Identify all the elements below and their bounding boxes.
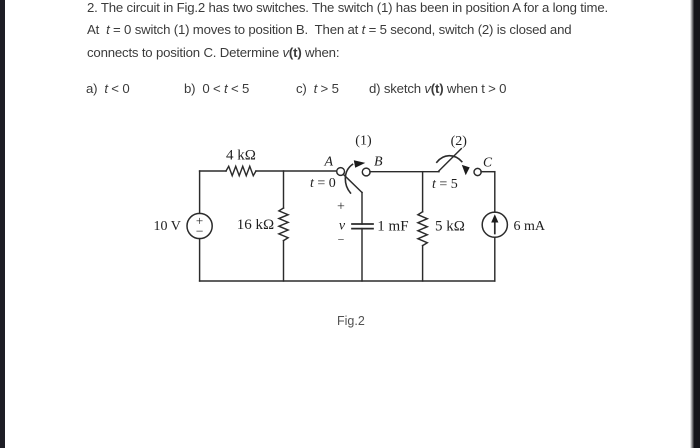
switch S1 arrowhead: [354, 160, 366, 168]
problem text line 3: [87, 45, 339, 60]
svg-text:A: A: [324, 155, 334, 170]
label 4 kOhm: [226, 148, 256, 164]
wire: right branch lower: [494, 237, 496, 281]
label v: [339, 219, 346, 234]
label 10 V: [154, 219, 181, 234]
svg-text:(2): (2): [451, 134, 468, 149]
svg-text:16 kΩ: 16 kΩ: [237, 217, 274, 233]
capacitor plus sign: [337, 199, 345, 214]
label 1 mF: [377, 219, 408, 235]
switch S1 arm (from A down to capacitor node): [343, 174, 362, 192]
switch S2 arrowhead: [462, 165, 470, 175]
switch S1 motion arrow arc: [345, 164, 352, 193]
svg-text:B: B: [374, 155, 383, 170]
voltage source minus sign: [196, 224, 204, 239]
label Fig.2: [337, 314, 365, 328]
wire: 5k branch upper stub: [422, 172, 424, 212]
svg-text:10 V: 10 V: [154, 219, 181, 234]
label B: [374, 155, 383, 170]
wire: left branch bottom (source to bottom rail): [199, 239, 201, 281]
option b: [184, 81, 249, 96]
wire: capacitor branch top (switch arm to plate): [361, 193, 363, 225]
label 16 kOhm: [237, 217, 274, 233]
switch S1 terminal B circle: [362, 168, 370, 176]
option d: [369, 81, 506, 96]
resistor R2 16k (vertical zigzag): [279, 208, 288, 241]
switch S1 terminal A circle: [337, 168, 345, 176]
label 6 mA: [514, 219, 546, 234]
wire: left branch top (node TL down to source): [199, 171, 201, 213]
wire: capacitor branch bottom: [361, 229, 363, 281]
svg-text:5 kΩ: 5 kΩ: [435, 219, 465, 235]
svg-text:t = 0: t = 0: [310, 176, 336, 191]
capacitor C1 bottom plate: [352, 228, 373, 230]
wire: top rail from left corner to resistor R1: [200, 170, 226, 172]
wire: from C to right corner: [481, 171, 495, 173]
problem text line 2: [87, 22, 571, 37]
switch S2 motion arrow arc: [437, 156, 462, 163]
label A: [324, 155, 334, 170]
problem text line 1: [87, 0, 608, 15]
label t=5: [432, 177, 458, 192]
label 5 kOhm: [435, 219, 465, 235]
label (2): [451, 134, 468, 149]
current source I1 arrowhead: [491, 214, 498, 222]
label (1): [355, 134, 372, 149]
wire: from switch terminal B to 5k node and switch S2 pivot: [370, 171, 439, 173]
svg-text:6 mA: 6 mA: [514, 219, 546, 234]
current source I1 arrow shaft: [494, 221, 496, 234]
switch S2 terminal C circle: [474, 168, 481, 175]
wire: right branch upper (corner down to current source): [494, 172, 496, 212]
svg-text:(1): (1): [355, 134, 372, 149]
wire: 5k branch lower stub: [422, 246, 424, 281]
svg-text:Fig.2: Fig.2: [337, 314, 365, 328]
svg-text:1 mF: 1 mF: [377, 219, 408, 235]
left dark border bar: [0, 0, 5, 448]
wire: bottom rail: [200, 280, 495, 282]
switch S2 arm (open, diagonal): [438, 149, 461, 172]
voltage source V1 circle: [187, 213, 212, 238]
option c: [296, 81, 339, 96]
option a: [86, 81, 129, 96]
svg-text:−: −: [338, 233, 345, 247]
capacitor minus sign: [338, 233, 345, 247]
wire: 16k branch lower stub: [283, 241, 285, 281]
voltage source plus sign: [196, 213, 203, 228]
svg-text:t = 5: t = 5: [432, 177, 458, 192]
svg-text:v: v: [339, 219, 346, 234]
resistor R3 5k (vertical zigzag): [418, 212, 427, 246]
right dark border bar: [690, 0, 700, 448]
resistor R1 4k (horizontal zigzag): [226, 166, 256, 175]
svg-text:+: +: [337, 199, 345, 214]
svg-text:C: C: [483, 154, 493, 169]
svg-text:4 kΩ: 4 kΩ: [226, 148, 256, 164]
current source I1 circle: [482, 212, 507, 237]
svg-text:−: −: [196, 224, 204, 239]
wire: top rail from R1 to switch terminal A: [256, 170, 337, 172]
capacitor C1 top plate: [352, 223, 373, 225]
wire: 16k branch upper stub: [283, 171, 285, 208]
label t=0: [310, 176, 336, 191]
label C: [483, 154, 493, 169]
